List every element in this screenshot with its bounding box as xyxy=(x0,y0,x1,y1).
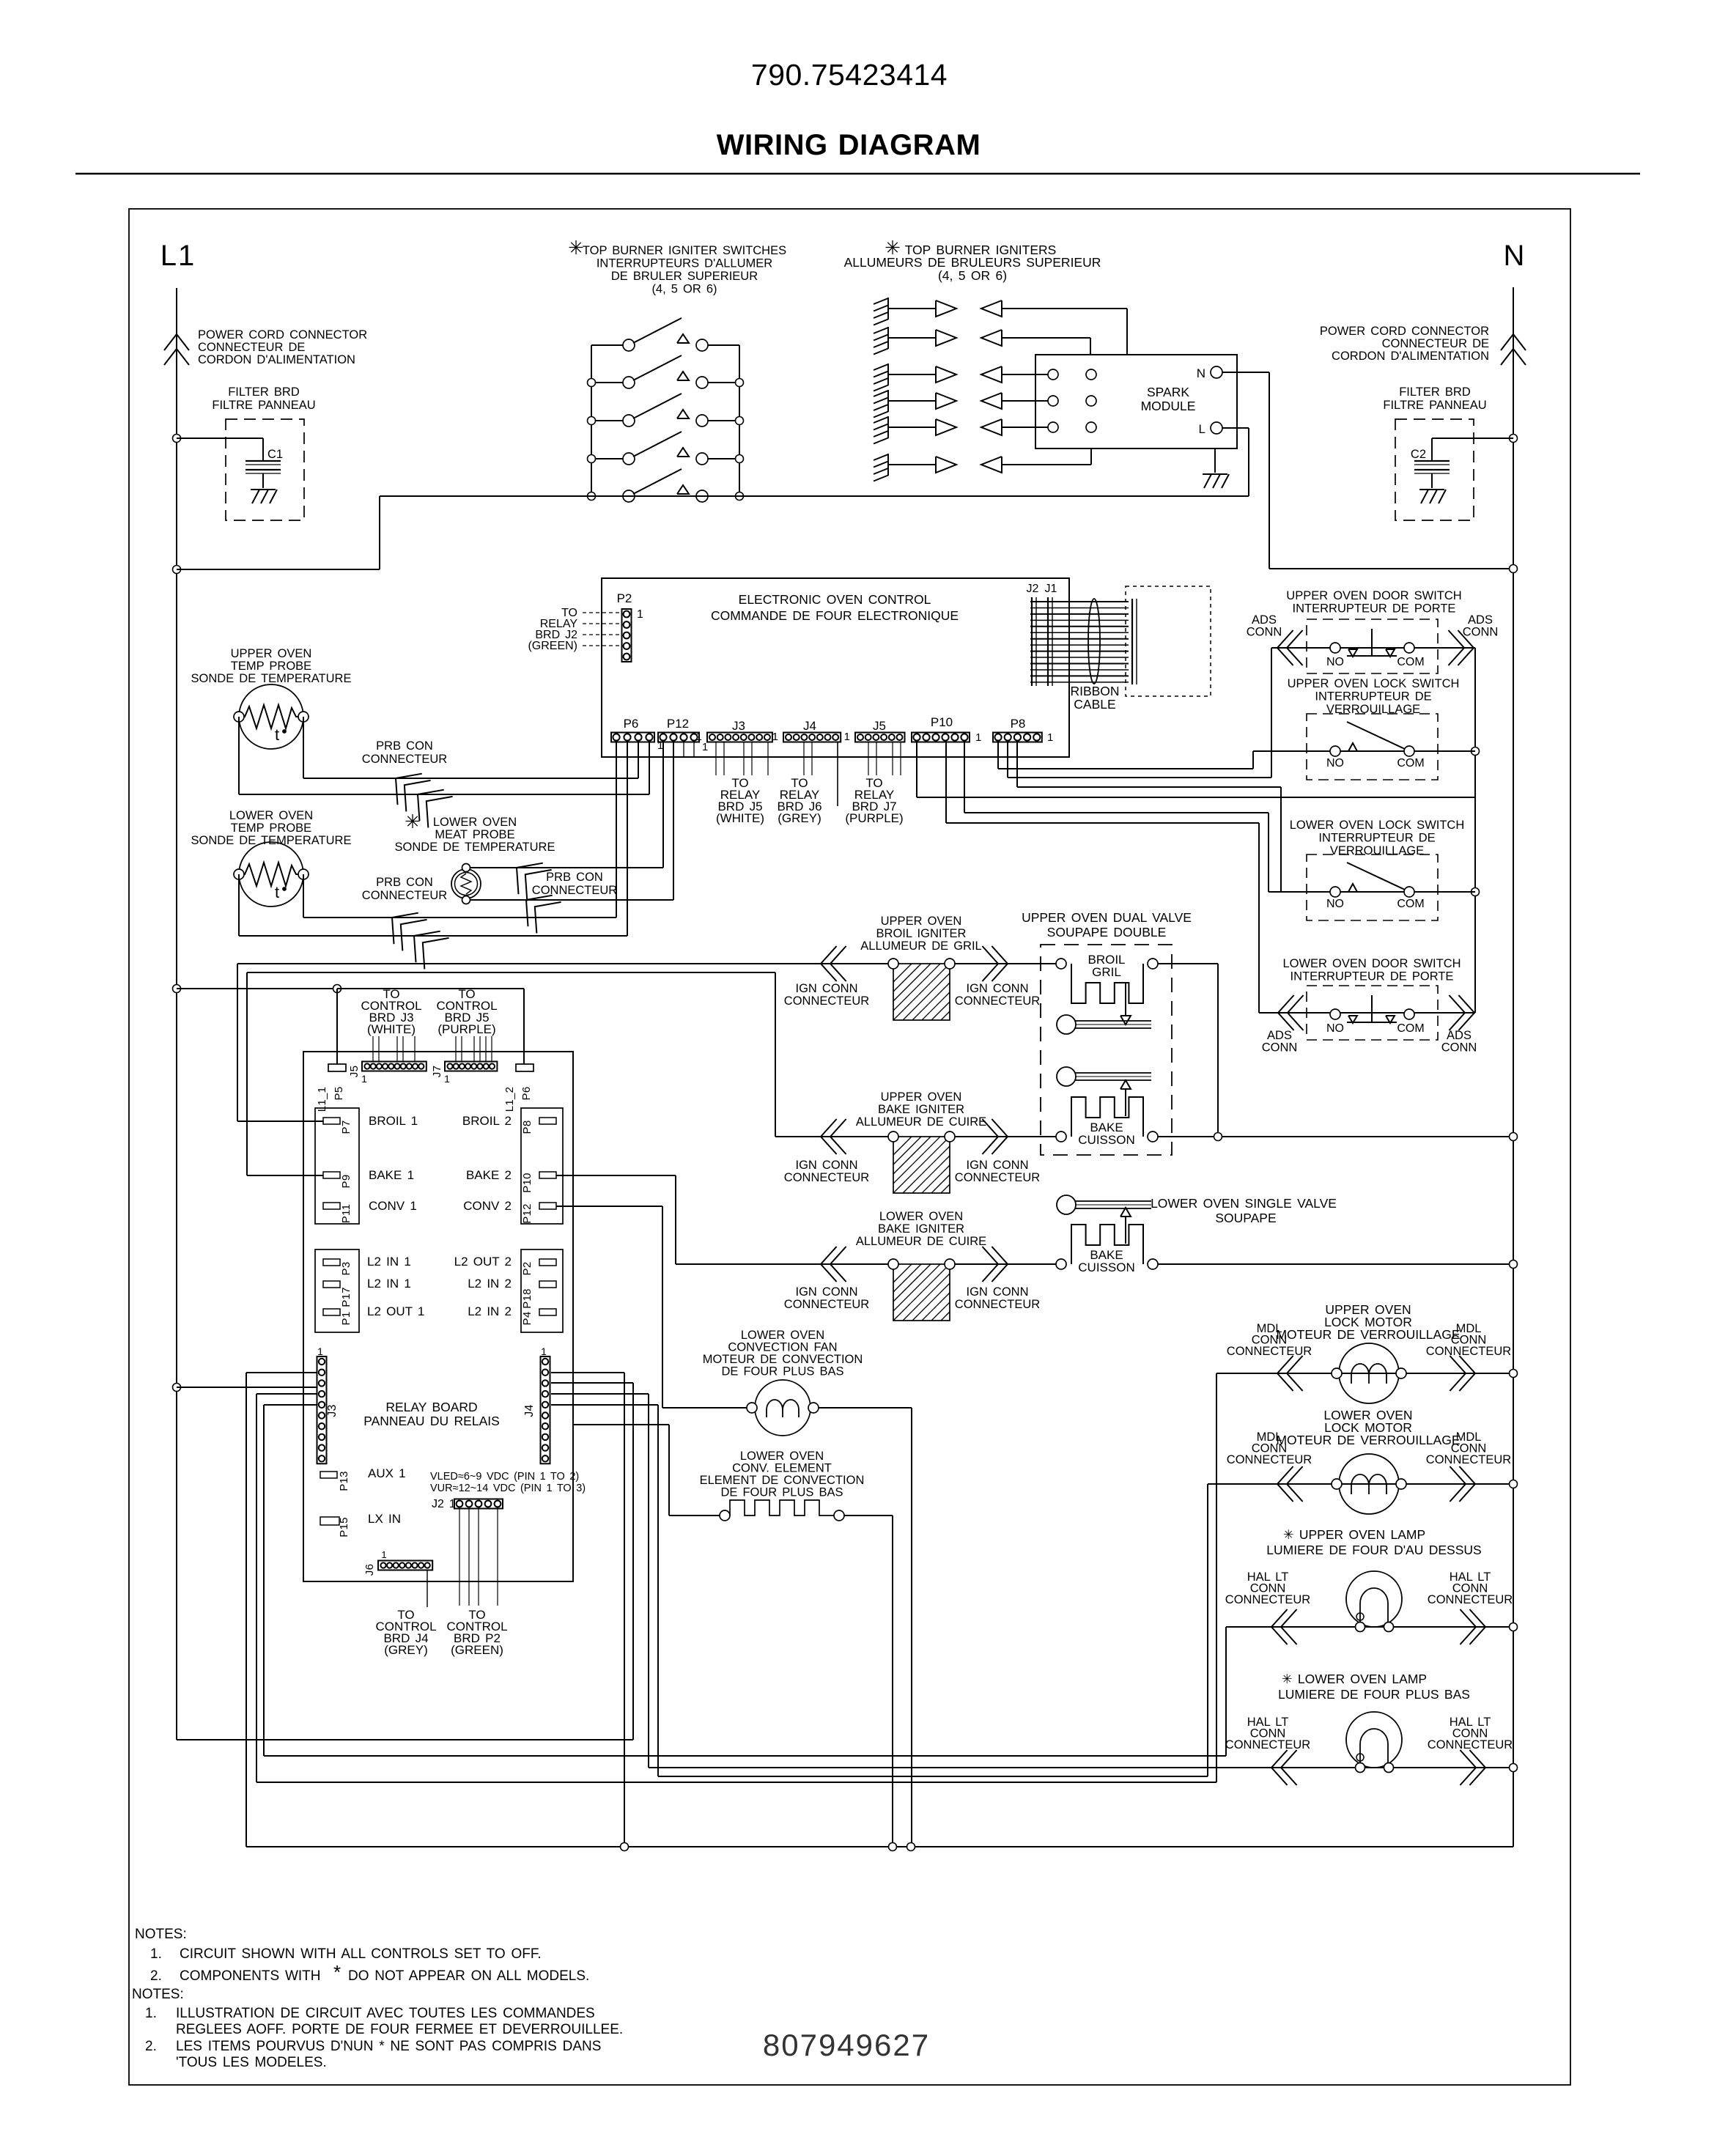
svg-text:LOWER OVEN LOCK SWITCH: LOWER OVEN LOCK SWITCH xyxy=(1290,819,1465,832)
svg-text:CONV 1: CONV 1 xyxy=(369,1199,417,1213)
svg-text:CONNECTEUR: CONNECTEUR xyxy=(1428,1738,1513,1751)
svg-text:RIBBON: RIBBON xyxy=(1070,684,1119,698)
svg-text:POWER CORD CONNECTOR: POWER CORD CONNECTOR xyxy=(198,328,367,342)
svg-text:CONNECTEUR: CONNECTEUR xyxy=(955,994,1041,1008)
svg-text:P9: P9 xyxy=(340,1175,352,1189)
svg-text:P3: P3 xyxy=(340,1262,352,1276)
svg-text:L: L xyxy=(1199,422,1205,436)
svg-text:INTERRUPTEURS D'ALLUMER: INTERRUPTEURS D'ALLUMER xyxy=(597,257,772,270)
svg-text:UPPER OVEN: UPPER OVEN xyxy=(881,915,962,928)
svg-text:CORDON D'ALIMENTATION: CORDON D'ALIMENTATION xyxy=(198,353,355,366)
svg-text:REGLEES AOFF. PORTE DE FOUR FE: REGLEES AOFF. PORTE DE FOUR FERMEE ET DE… xyxy=(176,2022,623,2037)
svg-text:1: 1 xyxy=(637,608,643,621)
svg-text:CONV 2: CONV 2 xyxy=(463,1199,512,1213)
svg-text:CONNECTEUR: CONNECTEUR xyxy=(955,1171,1041,1184)
svg-text:J2: J2 xyxy=(1027,583,1039,595)
svg-text:COM: COM xyxy=(1397,757,1424,769)
svg-text:2.: 2. xyxy=(150,1968,162,1984)
svg-text:DE FOUR PLUS BAS: DE FOUR PLUS BAS xyxy=(720,1486,843,1499)
svg-text:CONNECTEUR: CONNECTEUR xyxy=(955,1298,1041,1311)
svg-text:CONNECTEUR: CONNECTEUR xyxy=(1227,1453,1312,1466)
svg-text:J3: J3 xyxy=(326,1404,339,1417)
svg-text:CONNECTEUR: CONNECTEUR xyxy=(1227,1345,1312,1358)
svg-text:DO NOT APPEAR ON ALL MODELS.: DO NOT APPEAR ON ALL MODELS. xyxy=(348,1968,589,1984)
svg-text:TOP BURNER IGNITER SWITCHES: TOP BURNER IGNITER SWITCHES xyxy=(583,244,786,257)
svg-text:INTERRUPTEUR DE PORTE: INTERRUPTEUR DE PORTE xyxy=(1293,602,1456,616)
svg-text:CONN: CONN xyxy=(1463,626,1499,639)
svg-text:SPARK: SPARK xyxy=(1147,385,1189,399)
svg-text:(GREEN): (GREEN) xyxy=(451,1643,503,1657)
svg-text:ADS: ADS xyxy=(1468,613,1493,627)
svg-text:J1: J1 xyxy=(1045,583,1057,595)
svg-text:BAKE 1: BAKE 1 xyxy=(369,1168,414,1182)
svg-text:ALLUMEUR DE CUIRE: ALLUMEUR DE CUIRE xyxy=(856,1235,986,1248)
svg-text:ALLUMEURS DE BRULEURS SUPERIEU: ALLUMEURS DE BRULEURS SUPERIEUR xyxy=(844,255,1101,270)
svg-text:CUISSON: CUISSON xyxy=(1078,1133,1134,1147)
svg-text:IGN CONN: IGN CONN xyxy=(796,982,858,995)
svg-text:L2 OUT 2: L2 OUT 2 xyxy=(454,1255,512,1269)
svg-text:J4: J4 xyxy=(803,719,816,733)
svg-text:SONDE DE TEMPERATURE: SONDE DE TEMPERATURE xyxy=(191,672,352,685)
svg-text:NO: NO xyxy=(1326,656,1344,668)
svg-text:1: 1 xyxy=(361,1073,367,1085)
svg-text:CONNECTEUR: CONNECTEUR xyxy=(1426,1453,1512,1466)
svg-text:LOWER OVEN: LOWER OVEN xyxy=(879,1210,963,1223)
svg-text:VLED≈6~9 VDC (PIN 1 TO 2): VLED≈6~9 VDC (PIN 1 TO 2) xyxy=(430,1471,579,1483)
svg-text:SONDE DE TEMPERATURE: SONDE DE TEMPERATURE xyxy=(191,834,352,847)
svg-text:LOWER OVEN SINGLE VALVE: LOWER OVEN SINGLE VALVE xyxy=(1151,1196,1337,1211)
svg-text:MOTEUR DE VERROUILLAGE: MOTEUR DE VERROUILLAGE xyxy=(1276,1433,1460,1447)
svg-text:2.: 2. xyxy=(145,2039,157,2054)
svg-text:MOTEUR DE VERROUILLAGE: MOTEUR DE VERROUILLAGE xyxy=(1276,1327,1460,1342)
svg-text:VUR≈12~14 VDC (PIN 1 TO 3): VUR≈12~14 VDC (PIN 1 TO 3) xyxy=(430,1483,586,1494)
svg-text:LOWER OVEN: LOWER OVEN xyxy=(741,1329,824,1342)
svg-text:CORDON D'ALIMENTATION: CORDON D'ALIMENTATION xyxy=(1332,350,1489,363)
svg-text:CONNECTEUR: CONNECTEUR xyxy=(1225,1593,1311,1606)
svg-text:L1: L1 xyxy=(160,240,196,272)
svg-text:C1: C1 xyxy=(267,448,283,461)
svg-text:N: N xyxy=(1197,366,1205,380)
svg-text:J5: J5 xyxy=(348,1066,361,1077)
svg-text:1.: 1. xyxy=(150,1946,162,1962)
svg-text:1: 1 xyxy=(844,731,850,743)
svg-text:SOUPAPE DOUBLE: SOUPAPE DOUBLE xyxy=(1047,925,1167,939)
svg-text:GRIL: GRIL xyxy=(1092,965,1121,979)
svg-text:ILLUSTRATION DE CIRCUIT AVEC T: ILLUSTRATION DE CIRCUIT AVEC TOUTES LES … xyxy=(176,2006,595,2021)
svg-text:COM: COM xyxy=(1397,656,1424,668)
svg-text:J5: J5 xyxy=(873,719,886,733)
svg-text:AUX 1: AUX 1 xyxy=(368,1466,406,1480)
svg-text:✳ LOWER OVEN LAMP: ✳ LOWER OVEN LAMP xyxy=(1282,1672,1427,1686)
svg-text:SOUPAPE: SOUPAPE xyxy=(1215,1211,1276,1225)
svg-text:P13: P13 xyxy=(338,1471,350,1491)
svg-text:CONNECTEUR: CONNECTEUR xyxy=(784,1171,870,1184)
svg-text:1.: 1. xyxy=(145,2006,157,2021)
svg-text:P12: P12 xyxy=(667,717,689,731)
svg-text:BROIL 1: BROIL 1 xyxy=(369,1114,418,1128)
svg-text:CUISSON: CUISSON xyxy=(1078,1260,1134,1274)
svg-text:P18: P18 xyxy=(521,1288,533,1309)
svg-text:*: * xyxy=(333,1961,341,1983)
svg-text:LX IN: LX IN xyxy=(368,1512,401,1526)
svg-text:IGN CONN: IGN CONN xyxy=(967,982,1029,995)
svg-text:(PURPLE): (PURPLE) xyxy=(437,1022,495,1036)
svg-text:P11: P11 xyxy=(340,1204,352,1223)
svg-text:CONNECTEUR: CONNECTEUR xyxy=(1225,1738,1311,1751)
svg-text:LOWER OVEN DOOR SWITCH: LOWER OVEN DOOR SWITCH xyxy=(1282,957,1461,970)
svg-text:ADS: ADS xyxy=(1252,613,1277,627)
svg-text:1: 1 xyxy=(1047,731,1053,744)
svg-text:807949627: 807949627 xyxy=(763,2028,930,2062)
svg-text:UPPER OVEN: UPPER OVEN xyxy=(881,1090,962,1104)
svg-text:(4, 5 OR 6): (4, 5 OR 6) xyxy=(651,283,717,296)
svg-text:CONN: CONN xyxy=(1247,626,1282,639)
svg-text:CIRCUIT SHOWN WITH ALL CONTROL: CIRCUIT SHOWN WITH ALL CONTROLS SET TO O… xyxy=(180,1946,542,1962)
svg-text:CONNECTEUR: CONNECTEUR xyxy=(362,889,448,902)
svg-text:UPPER OVEN DOOR SWITCH: UPPER OVEN DOOR SWITCH xyxy=(1286,589,1461,602)
svg-text:(WHITE): (WHITE) xyxy=(716,811,764,825)
svg-text:P7: P7 xyxy=(340,1121,352,1134)
svg-text:1: 1 xyxy=(696,731,702,743)
svg-text:CONNECTEUR: CONNECTEUR xyxy=(784,994,870,1008)
svg-text:DE FOUR PLUS BAS: DE FOUR PLUS BAS xyxy=(721,1365,843,1378)
svg-text:TEMP PROBE: TEMP PROBE xyxy=(231,822,311,835)
svg-text:SONDE DE TEMPERATURE: SONDE DE TEMPERATURE xyxy=(395,841,555,854)
svg-text:NOTES:: NOTES: xyxy=(135,1927,187,1942)
svg-text:✳ UPPER OVEN LAMP: ✳ UPPER OVEN LAMP xyxy=(1283,1527,1425,1542)
svg-text:LUMIERE DE FOUR PLUS BAS: LUMIERE DE FOUR PLUS BAS xyxy=(1278,1687,1470,1702)
svg-text:CONNECTEUR: CONNECTEUR xyxy=(784,1298,870,1311)
svg-text:BROIL 2: BROIL 2 xyxy=(462,1114,512,1128)
svg-text:J7: J7 xyxy=(431,1066,443,1077)
svg-text:FILTRE PANNEAU: FILTRE PANNEAU xyxy=(1383,399,1486,412)
svg-text:PRB CON: PRB CON xyxy=(376,739,433,753)
svg-text:FILTRE PANNEAU: FILTRE PANNEAU xyxy=(212,399,315,412)
svg-text:J4: J4 xyxy=(523,1404,536,1417)
svg-text:P10: P10 xyxy=(931,715,953,729)
svg-text:P10: P10 xyxy=(521,1173,533,1193)
svg-text:DE BRULER SUPERIEUR: DE BRULER SUPERIEUR xyxy=(611,270,758,283)
svg-text:P15: P15 xyxy=(338,1517,350,1537)
svg-text:CONNECTEUR: CONNECTEUR xyxy=(1428,1593,1513,1606)
svg-text:UPPER OVEN DUAL VALVE: UPPER OVEN DUAL VALVE xyxy=(1022,910,1192,925)
svg-text:✳: ✳ xyxy=(568,237,584,259)
svg-text:P2: P2 xyxy=(617,591,632,605)
svg-text:✳: ✳ xyxy=(405,811,421,833)
svg-text:UPPER OVEN LOCK SWITCH: UPPER OVEN LOCK SWITCH xyxy=(1288,677,1460,690)
svg-text:INTERRUPTEUR DE: INTERRUPTEUR DE xyxy=(1318,832,1435,845)
svg-text:1: 1 xyxy=(702,741,708,753)
svg-text:IGN CONN: IGN CONN xyxy=(967,1285,1029,1299)
svg-text:ALLUMEUR DE GRIL: ALLUMEUR DE GRIL xyxy=(860,939,981,953)
svg-text:CONNECTEUR: CONNECTEUR xyxy=(1426,1345,1512,1358)
svg-text:NO: NO xyxy=(1326,757,1344,769)
svg-text:COM: COM xyxy=(1397,898,1424,910)
svg-text:P1: P1 xyxy=(340,1312,352,1326)
svg-text:L2 OUT 1: L2 OUT 1 xyxy=(367,1304,424,1318)
svg-text:INTERRUPTEUR DE PORTE: INTERRUPTEUR DE PORTE xyxy=(1290,970,1454,983)
svg-text:LOWER OVEN: LOWER OVEN xyxy=(229,809,313,822)
svg-text:COM: COM xyxy=(1397,1022,1424,1035)
svg-text:1: 1 xyxy=(444,1073,450,1085)
svg-text:COMPONENTS WITH: COMPONENTS WITH xyxy=(180,1968,321,1984)
svg-text:FILTER BRD: FILTER BRD xyxy=(228,385,300,399)
svg-text:L2 IN 2: L2 IN 2 xyxy=(468,1304,512,1318)
svg-text:PANNEAU DU RELAIS: PANNEAU DU RELAIS xyxy=(363,1414,500,1428)
svg-text:1: 1 xyxy=(541,1345,547,1357)
svg-text:(PURPLE): (PURPLE) xyxy=(845,811,903,825)
svg-text:C2: C2 xyxy=(1411,448,1426,461)
svg-text:CABLE: CABLE xyxy=(1074,697,1115,712)
svg-text:IGN CONN: IGN CONN xyxy=(796,1285,858,1299)
svg-text:LES ITEMS POURVUS D'NUN * NE S: LES ITEMS POURVUS D'NUN * NE SONT PAS CO… xyxy=(176,2039,601,2054)
svg-text:(GREY): (GREY) xyxy=(384,1643,428,1657)
svg-text:(GREEN): (GREEN) xyxy=(528,640,577,652)
svg-text:BROIL IGNITER: BROIL IGNITER xyxy=(876,927,967,940)
svg-text:L2 IN 1: L2 IN 1 xyxy=(367,1255,411,1269)
svg-text:L1_2: L1_2 xyxy=(503,1087,516,1112)
svg-text:P6: P6 xyxy=(624,717,639,731)
svg-text:CONVECTION FAN: CONVECTION FAN xyxy=(728,1341,837,1354)
svg-text:RELAY BOARD: RELAY BOARD xyxy=(385,1400,477,1414)
svg-text:IGN CONN: IGN CONN xyxy=(796,1159,858,1172)
svg-text:1: 1 xyxy=(381,1549,386,1560)
svg-text:790.75423414: 790.75423414 xyxy=(751,58,948,92)
svg-text:CONNECTEUR: CONNECTEUR xyxy=(362,753,448,766)
svg-text:J6: J6 xyxy=(363,1564,376,1576)
svg-text:P5: P5 xyxy=(333,1087,345,1101)
svg-text:P4: P4 xyxy=(521,1312,533,1326)
svg-text:BAKE IGNITER: BAKE IGNITER xyxy=(878,1103,964,1116)
svg-text:IGN CONN: IGN CONN xyxy=(967,1159,1029,1172)
svg-text:VERROUILLAGE: VERROUILLAGE xyxy=(1330,844,1424,857)
svg-text:PRB CON: PRB CON xyxy=(546,871,603,884)
svg-text:UPPER OVEN: UPPER OVEN xyxy=(231,647,312,660)
svg-text:LOWER OVEN: LOWER OVEN xyxy=(433,816,517,829)
svg-text:MOTEUR DE CONVECTION: MOTEUR DE CONVECTION xyxy=(703,1353,863,1366)
svg-text:t: t xyxy=(275,726,279,744)
svg-text:J2 1: J2 1 xyxy=(432,1498,456,1510)
svg-text:1: 1 xyxy=(975,731,981,744)
svg-text:FILTER BRD: FILTER BRD xyxy=(1399,385,1471,399)
svg-text:CONNECTEUR: CONNECTEUR xyxy=(532,884,618,897)
svg-text:(4, 5 OR 6): (4, 5 OR 6) xyxy=(938,268,1007,283)
svg-text:P6: P6 xyxy=(520,1087,533,1101)
svg-text:MODULE: MODULE xyxy=(1141,399,1196,413)
svg-text:CONN: CONN xyxy=(1262,1041,1298,1055)
svg-text:P8: P8 xyxy=(521,1121,533,1134)
svg-text:CONNECTEUR DE: CONNECTEUR DE xyxy=(1382,337,1489,350)
svg-text:BAKE 2: BAKE 2 xyxy=(466,1168,512,1182)
svg-text:NO: NO xyxy=(1326,898,1344,910)
svg-text:PRB CON: PRB CON xyxy=(376,876,433,889)
svg-text:'TOUS LES MODELES.: 'TOUS LES MODELES. xyxy=(176,2055,327,2070)
svg-text:CONN: CONN xyxy=(1441,1041,1477,1055)
svg-text:LOWER OVEN: LOWER OVEN xyxy=(740,1450,824,1463)
svg-text:P8: P8 xyxy=(1011,717,1026,731)
svg-text:NO: NO xyxy=(1326,1022,1344,1035)
svg-text:ADS: ADS xyxy=(1447,1029,1472,1042)
svg-text:(WHITE): (WHITE) xyxy=(367,1022,416,1036)
svg-text:ELECTRONIC OVEN CONTROL: ELECTRONIC OVEN CONTROL xyxy=(739,592,931,607)
svg-text:ALLUMEUR DE CUIRE: ALLUMEUR DE CUIRE xyxy=(856,1115,986,1129)
svg-text:WIRING DIAGRAM: WIRING DIAGRAM xyxy=(717,129,981,161)
svg-text:NOTES:: NOTES: xyxy=(132,1987,184,2002)
svg-text:(GREY): (GREY) xyxy=(778,811,821,825)
svg-text:L2 IN 1: L2 IN 1 xyxy=(367,1277,411,1291)
svg-text:TEMP PROBE: TEMP PROBE xyxy=(231,660,311,673)
svg-text:J3: J3 xyxy=(732,719,745,733)
svg-text:P12: P12 xyxy=(521,1203,533,1224)
svg-text:1: 1 xyxy=(772,731,778,743)
svg-text:LUMIERE DE FOUR D'AU DESSUS: LUMIERE DE FOUR D'AU DESSUS xyxy=(1266,1543,1481,1557)
svg-text:MEAT PROBE: MEAT PROBE xyxy=(435,828,514,841)
svg-text:POWER CORD CONNECTOR: POWER CORD CONNECTOR xyxy=(1320,325,1489,338)
svg-text:ADS: ADS xyxy=(1267,1029,1292,1042)
svg-text:1: 1 xyxy=(317,1345,323,1357)
svg-text:CONNECTEUR DE: CONNECTEUR DE xyxy=(198,341,305,354)
svg-text:CONV. ELEMENT: CONV. ELEMENT xyxy=(732,1462,832,1475)
svg-text:BAKE IGNITER: BAKE IGNITER xyxy=(878,1222,964,1236)
svg-text:t: t xyxy=(275,883,279,901)
svg-text:P2: P2 xyxy=(521,1262,533,1276)
svg-text:COMMANDE DE FOUR ELECTRONIQUE: COMMANDE DE FOUR ELECTRONIQUE xyxy=(711,608,959,623)
svg-text:INTERRUPTEUR DE: INTERRUPTEUR DE xyxy=(1315,690,1431,704)
svg-text:P17: P17 xyxy=(340,1287,352,1307)
svg-text:N: N xyxy=(1504,240,1525,272)
svg-text:ELEMENT DE CONVECTION: ELEMENT DE CONVECTION xyxy=(700,1474,865,1487)
svg-text:L2 IN 2: L2 IN 2 xyxy=(468,1277,512,1291)
